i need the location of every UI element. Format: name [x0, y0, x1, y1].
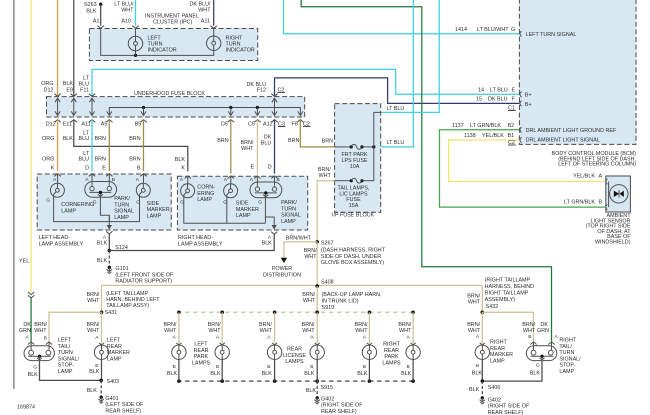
wire ORG vertical from top to fuse block D12	[57, 0, 59, 97]
node bus B5	[142, 106, 145, 109]
svg-text:BLU: BLU	[261, 140, 272, 146]
svg-text:REAR SHELF): REAR SHELF)	[105, 408, 141, 414]
lamp left rear park 1	[178, 312, 180, 343]
pin chevrons into right headlamp box	[185, 176, 191, 179]
svg-text:ASSEMBLY): ASSEMBLY)	[485, 297, 516, 303]
svg-text:BLK: BLK	[97, 241, 108, 247]
pin G chevron	[520, 31, 522, 37]
ground G402 (left instance)	[314, 396, 320, 404]
svg-text:D5: D5	[221, 122, 228, 128]
wire BRN B5 to left side marker	[143, 120, 145, 172]
fuse block internal pass-through D12	[55, 98, 60, 115]
svg-text:LT BLU: LT BLU	[387, 140, 405, 146]
svg-text:B: B	[267, 364, 270, 370]
fuse block internal pass-through F11/A11	[89, 98, 94, 115]
svg-text:WHT: WHT	[121, 8, 134, 14]
svg-text:ORG: ORG	[42, 157, 54, 163]
lamp rear license 2	[316, 312, 318, 343]
svg-text:BRN: BRN	[288, 138, 299, 144]
lamp right tail/turn signal/stop (dual)	[530, 342, 536, 345]
pin chevrons into left headlamp box	[54, 174, 60, 177]
pin F chevron B+	[520, 101, 522, 107]
wire BLK E11 across to right cornering lamp	[74, 120, 188, 172]
svg-text:G: G	[46, 198, 50, 204]
svg-text:BLK: BLK	[87, 388, 98, 394]
svg-text:SIDE: SIDE	[236, 201, 249, 207]
ground G101	[107, 266, 113, 274]
pin A10 chevron	[132, 26, 138, 29]
svg-text:15: 15	[476, 97, 482, 103]
svg-text:WHT: WHT	[303, 298, 316, 304]
wire fuse junction riser	[374, 112, 381, 180]
svg-text:GLOVE BOX ASSEMBLY): GLOVE BOX ASSEMBLY)	[321, 260, 384, 266]
wire BRN/WHT S408 trunk run (left to S431, right to S432)	[102, 285, 483, 312]
svg-text:LAMP: LAMP	[61, 208, 76, 214]
svg-text:RIGHT: RIGHT	[559, 338, 576, 344]
lamp left rear park 2	[221, 312, 223, 343]
svg-text:14: 14	[478, 87, 484, 93]
svg-text:A11: A11	[81, 122, 90, 128]
node junction under left turn indicator	[134, 54, 137, 57]
lamp right turn indicator	[207, 28, 221, 50]
lamp cornering (left)	[57, 174, 59, 183]
svg-text:B: B	[310, 364, 313, 370]
svg-text:10A: 10A	[350, 164, 360, 170]
svg-text:GRN: GRN	[537, 328, 549, 334]
svg-text:S403: S403	[107, 379, 120, 385]
svg-text:WHT: WHT	[523, 328, 536, 334]
svg-text:CORN-: CORN-	[197, 185, 215, 191]
svg-text:LT GRN/BLK: LT GRN/BLK	[470, 123, 501, 129]
underhood fuse block box	[47, 97, 305, 117]
svg-text:B2: B2	[508, 123, 515, 129]
svg-text:TAIL/: TAIL/	[559, 344, 572, 350]
svg-text:LAMP: LAMP	[114, 215, 129, 221]
svg-text:TURN: TURN	[559, 350, 574, 356]
svg-text:LEFT OF STEERING COLUMN): LEFT OF STEERING COLUMN)	[558, 162, 636, 168]
svg-text:G: G	[258, 200, 262, 206]
svg-text:LAMP: LAMP	[197, 197, 212, 203]
node YEL to DK GRN inline connector	[28, 292, 34, 295]
svg-text:(RIGHT TAILLAMP: (RIGHT TAILLAMP	[485, 278, 531, 284]
svg-text:LAMP: LAMP	[236, 213, 251, 219]
wire BLK left tail G to S403	[40, 361, 102, 380]
svg-text:WHT: WHT	[87, 298, 100, 304]
wire DK BLU A12 to right park/turn B	[274, 120, 276, 174]
svg-text:LT BLU/WHT: LT BLU/WHT	[477, 27, 509, 33]
svg-text:WHT: WHT	[164, 328, 177, 334]
svg-text:TURN: TURN	[58, 350, 73, 356]
svg-text:UNDERHOOD FUSE BLOCK: UNDERHOOD FUSE BLOCK	[134, 91, 205, 97]
svg-text:TURN: TURN	[281, 206, 296, 212]
wire BLK vertical from top to fuse block E9	[73, 0, 75, 97]
wire BRN F8 down and right to FRT PARK fuse	[300, 120, 334, 147]
svg-text:IN TRUNK LID): IN TRUNK LID)	[322, 299, 359, 305]
svg-text:MARKER: MARKER	[107, 350, 130, 356]
svg-text:D12: D12	[44, 88, 54, 94]
svg-text:D12: D12	[46, 122, 56, 128]
svg-text:SIGNAL/: SIGNAL/	[559, 356, 581, 362]
svg-text:BLK: BLK	[469, 387, 480, 393]
svg-text:WHT: WHT	[87, 328, 100, 334]
wire BRN/WHT S432 to right tail lamp B	[482, 312, 533, 341]
pin chevrons on top edge	[54, 94, 60, 97]
svg-text:(DASH HARNESS, RIGHT: (DASH HARNESS, RIGHT	[321, 248, 386, 254]
svg-text:WINDSHIELD): WINDSHIELD)	[595, 240, 631, 246]
svg-text:DRL AMBIENT LIGHT GROUND REF: DRL AMBIENT LIGHT GROUND REF	[526, 128, 617, 134]
svg-text:I/P FUSE BLOCK: I/P FUSE BLOCK	[332, 212, 375, 218]
svg-text:DRL AMBIENT LIGHT SIGNAL: DRL AMBIENT LIGHT SIGNAL	[526, 138, 600, 144]
svg-text:LAMP: LAMP	[147, 213, 162, 219]
wire LT BLU/WHT 1414 from top to BCM G	[284, 0, 520, 34]
svg-text:REAR: REAR	[490, 346, 505, 352]
wire BLK right marker B to S406	[481, 359, 483, 381]
svg-text:INDICATOR: INDICATOR	[148, 48, 177, 54]
svg-text:LEFT TURN SIGNAL: LEFT TURN SIGNAL	[526, 32, 577, 38]
svg-text:DK BLU: DK BLU	[488, 97, 508, 103]
wire DK BLU from C2 to fuse block F12 and over to BCM F	[275, 78, 520, 104]
svg-text:BLK: BLK	[63, 136, 74, 142]
svg-text:F11: F11	[80, 88, 89, 94]
svg-text:BLK: BLK	[89, 369, 100, 375]
splice S124	[108, 249, 112, 253]
splice S263	[99, 2, 102, 5]
node bus dot 4 (S919)	[315, 311, 319, 315]
svg-text:BLK: BLK	[63, 81, 74, 87]
svg-text:BLK: BLK	[210, 371, 221, 377]
svg-text:S919: S919	[322, 305, 335, 311]
svg-text:BLK: BLK	[401, 371, 412, 377]
svg-text:BRN: BRN	[322, 139, 333, 145]
svg-text:BLK: BLK	[306, 388, 317, 394]
svg-text:WHT: WHT	[302, 328, 315, 334]
svg-text:S432: S432	[486, 304, 499, 310]
wire BRN/WHT S431 to left tail lamp B	[49, 312, 102, 341]
sheet left margin line	[13, 0, 15, 389]
wire YEL vertical left	[30, 0, 32, 293]
svg-text:B: B	[476, 363, 479, 369]
svg-text:LAMP: LAMP	[281, 219, 296, 225]
svg-text:TAILLAMP ASSY): TAILLAMP ASSY)	[106, 303, 149, 309]
svg-text:REAR: REAR	[107, 344, 122, 350]
svg-text:LAMP ASSEMBLY: LAMP ASSEMBLY	[39, 241, 84, 247]
svg-text:BLK: BLK	[167, 371, 178, 377]
svg-text:G402: G402	[488, 398, 501, 404]
wire S124 to right headlamp ground	[109, 234, 274, 250]
svg-text:BLK: BLK	[304, 371, 315, 377]
wire BRN D5 to right side marker	[230, 120, 232, 174]
node bus C5	[256, 106, 259, 109]
wire BLK right tail G to S406	[482, 361, 542, 381]
fuse block internal bus	[109, 108, 300, 116]
svg-text:LT BLU: LT BLU	[490, 87, 508, 93]
svg-text:WHT: WHT	[241, 146, 254, 152]
svg-text:BRN: BRN	[129, 136, 140, 142]
svg-text:D: D	[268, 164, 272, 170]
splice S431	[100, 311, 104, 315]
wire BRN A5 to left park/turn lamp B	[108, 120, 110, 172]
svg-text:E: E	[251, 164, 255, 170]
svg-text:S406: S406	[488, 385, 501, 391]
svg-text:BRN: BRN	[217, 138, 228, 144]
svg-text:B: B	[173, 364, 176, 370]
pin A1 chevron	[98, 26, 104, 29]
svg-text:YEL: YEL	[19, 259, 29, 265]
svg-text:REAR SHELF): REAR SHELF)	[488, 410, 524, 415]
lamp right rear park 1	[368, 312, 370, 343]
svg-text:LICENSE: LICENSE	[283, 353, 306, 359]
svg-text:RIGHT: RIGHT	[490, 340, 507, 346]
svg-text:WHT: WHT	[198, 8, 211, 14]
node bus dot 5	[368, 311, 372, 315]
right headlamp assembly box	[177, 176, 307, 230]
svg-text:LT BLU: LT BLU	[387, 106, 405, 112]
svg-text:PARK: PARK	[384, 354, 399, 360]
pin E chevron B+	[520, 92, 522, 98]
svg-text:A12: A12	[263, 122, 273, 128]
svg-text:G: G	[511, 27, 515, 33]
svg-text:RIGHT TAILLAMP: RIGHT TAILLAMP	[485, 291, 529, 297]
wire BLK from S263 to IPC A1	[100, 4, 102, 25]
fuse FRT PARK LPS FUSE 10A	[335, 145, 374, 150]
wire BRN/WHT tail fuse to S267	[317, 181, 334, 242]
svg-text:BRN: BRN	[95, 157, 106, 163]
svg-text:B+: B+	[525, 93, 532, 99]
svg-text:WHT: WHT	[468, 328, 481, 334]
svg-text:ORG: ORG	[42, 136, 54, 142]
svg-text:BLK: BLK	[97, 258, 108, 264]
svg-text:BRN/WHT: BRN/WHT	[286, 235, 312, 241]
wire LT BLU/WHT from top to IPC A10	[135, 0, 137, 26]
svg-text:SIDE: SIDE	[147, 201, 160, 207]
ground G401	[98, 396, 104, 404]
svg-text:B+: B+	[525, 102, 532, 108]
svg-text:TURN: TURN	[114, 202, 129, 208]
wire BRN/WHT S267 to S408	[316, 242, 318, 286]
svg-text:WHT: WHT	[319, 173, 332, 179]
svg-text:MARKER: MARKER	[490, 352, 513, 358]
svg-text:A10: A10	[121, 19, 131, 25]
svg-text:MARKER: MARKER	[147, 207, 170, 213]
wire BRN/WHT C5 to right park/turn A	[256, 120, 258, 174]
node bus dot 3	[273, 311, 277, 315]
wire LT BLU riser to FRT PARK fuse output	[374, 0, 413, 147]
svg-text:1414: 1414	[455, 27, 467, 33]
svg-text:REAR: REAR	[194, 348, 209, 354]
svg-text:LEFT HEAD-: LEFT HEAD-	[39, 235, 71, 241]
svg-text:B1: B1	[508, 133, 515, 139]
svg-text:POWER: POWER	[272, 266, 292, 272]
svg-text:LEFT: LEFT	[194, 342, 208, 348]
node bus dot 2	[220, 311, 224, 315]
svg-text:BLU: BLU	[79, 157, 90, 163]
pin A BLK out of left headlamp box	[106, 231, 112, 234]
wire LT BLU from F11 corner across below IPC	[92, 69, 519, 96]
lamp right rear park 2	[412, 312, 414, 343]
wire DK GRN to left tail lamp	[30, 298, 32, 342]
wire ORG D12 to left cornering lamp	[57, 120, 59, 172]
svg-text:15A: 15A	[349, 203, 359, 209]
svg-text:B: B	[599, 199, 603, 205]
svg-text:BLK: BLK	[175, 157, 186, 163]
svg-text:CORNERING: CORNERING	[61, 202, 94, 208]
svg-text:YEL/BLK: YEL/BLK	[482, 133, 504, 139]
splice S432	[481, 311, 485, 315]
svg-text:(RIGHT SIDE OF: (RIGHT SIDE OF	[321, 403, 363, 409]
svg-text:(RIGHT SIDE OF: (RIGHT SIDE OF	[488, 404, 530, 410]
svg-text:REAR SHELF): REAR SHELF)	[321, 409, 357, 415]
svg-text:STOP-: STOP-	[58, 363, 75, 369]
svg-text:INDICATOR: INDICATOR	[226, 48, 255, 54]
svg-text:G401: G401	[105, 396, 118, 402]
wire BLK S406 to G402	[481, 381, 483, 397]
svg-text:ORG: ORG	[41, 81, 53, 87]
lamp right rear marker	[475, 343, 489, 360]
svg-text:GRN: GRN	[19, 328, 31, 334]
wire LT BLU riser to IP fuse block top	[381, 0, 440, 112]
node bus dot 1	[177, 311, 181, 315]
body control module (BCM) box	[519, 0, 636, 144]
svg-text:C5: C5	[248, 122, 255, 128]
svg-text:CLUSTER (IPC): CLUSTER (IPC)	[153, 20, 192, 26]
wire BRN/WHT S431 down to left rear marker	[101, 312, 103, 343]
svg-text:RADIATOR SUPPORT): RADIATOR SUPPORT)	[115, 279, 172, 285]
svg-text:WHT: WHT	[304, 254, 317, 260]
svg-text:E: E	[512, 87, 516, 93]
wire BLK left marker B to S403	[101, 359, 103, 380]
svg-text:(LEFT SIDE OF: (LEFT SIDE OF	[105, 402, 144, 408]
node fuse output junction	[372, 145, 375, 148]
splice S406	[481, 379, 485, 383]
lamp left tail/turn signal/stop (dual)	[28, 342, 34, 345]
splice S408	[315, 284, 319, 288]
pin chevrons on bottom edge	[54, 120, 60, 123]
wire IPC internal A1 down and across	[101, 28, 214, 55]
wire BRN/WHT S408 down to S919 bus	[316, 286, 318, 312]
svg-text:BRN: BRN	[129, 157, 140, 163]
svg-text:WHT: WHT	[355, 328, 368, 334]
left headlamp assembly box	[37, 174, 171, 230]
svg-text:F8: F8	[292, 122, 298, 128]
svg-text:G101: G101	[115, 266, 128, 272]
svg-text:A: A	[599, 174, 603, 180]
wire BLK to S124	[108, 234, 110, 251]
svg-text:BLK: BLK	[472, 371, 483, 377]
svg-text:S431: S431	[105, 310, 118, 316]
svg-text:REAR: REAR	[384, 348, 399, 354]
instrument panel cluster (IPC) box	[89, 29, 257, 61]
svg-text:D: D	[85, 165, 89, 171]
svg-text:ERING: ERING	[197, 191, 214, 197]
fuse block internal pass-through F12/A12	[272, 98, 277, 115]
svg-text:REAR: REAR	[287, 347, 302, 353]
svg-text:LAMP ASSEMBLY: LAMP ASSEMBLY	[178, 241, 223, 247]
svg-text:TAIL/: TAIL/	[58, 344, 71, 350]
wire left box ground routing	[54, 195, 140, 222]
svg-text:BLK: BLK	[357, 371, 368, 377]
svg-text:1137: 1137	[452, 123, 464, 129]
svg-text:G: G	[33, 365, 37, 371]
svg-text:1138: 1138	[464, 133, 476, 139]
splice S403	[99, 379, 103, 383]
svg-text:SIGNAL: SIGNAL	[114, 209, 134, 215]
svg-text:LAMPS: LAMPS	[192, 360, 211, 366]
svg-text:S408: S408	[321, 280, 334, 286]
splice S267	[315, 240, 319, 244]
wire BLK S403 to G401	[100, 380, 102, 396]
svg-text:LT GRN/BLK: LT GRN/BLK	[564, 199, 595, 205]
svg-text:BLK: BLK	[530, 371, 541, 377]
svg-text:G: G	[93, 200, 97, 206]
wire DK BLU/WHT from top to IPC A11	[213, 0, 215, 26]
svg-text:K: K	[51, 165, 55, 171]
svg-text:S267: S267	[321, 241, 334, 247]
lamp left rear marker	[94, 343, 108, 360]
svg-text:B: B	[44, 336, 47, 342]
svg-text:BLU: BLU	[79, 136, 90, 142]
svg-text:E: E	[102, 165, 106, 171]
svg-text:BLK: BLK	[28, 372, 39, 378]
svg-text:WHT: WHT	[399, 328, 412, 334]
svg-text:LAMP: LAMP	[107, 356, 122, 362]
arrow to power distribution	[281, 258, 287, 263]
svg-text:LAMP: LAMP	[58, 369, 73, 375]
svg-text:B: B	[363, 364, 366, 370]
pin A BLK out of right headlamp box	[271, 232, 277, 235]
svg-text:(BACK-UP LAMP HARN,: (BACK-UP LAMP HARN,	[322, 292, 383, 298]
svg-text:BLK: BLK	[86, 9, 97, 15]
svg-text:WHT: WHT	[34, 328, 47, 334]
svg-text:B: B	[216, 364, 219, 370]
svg-text:WHT: WHT	[208, 328, 221, 334]
svg-text:MARKER: MARKER	[236, 207, 259, 213]
svg-text:B5: B5	[135, 122, 142, 128]
svg-text:LEFT: LEFT	[58, 338, 72, 344]
svg-text:LAMPS: LAMPS	[382, 360, 401, 366]
svg-text:B: B	[137, 165, 141, 171]
svg-text:DISTRIBUTION: DISTRIBUTION	[263, 272, 301, 278]
svg-text:(LEFT FRONT SIDE OF: (LEFT FRONT SIDE OF	[115, 272, 174, 278]
svg-text:LAMPS: LAMPS	[285, 359, 304, 365]
svg-text:WHT: WHT	[468, 299, 481, 305]
svg-text:K: K	[181, 165, 185, 171]
svg-text:RIGHT: RIGHT	[383, 342, 400, 348]
svg-text:LAMP: LAMP	[490, 358, 505, 364]
svg-text:E11: E11	[63, 122, 72, 128]
svg-text:B: B	[407, 364, 410, 370]
lamp rear license 1	[274, 312, 276, 343]
harness bus (dashed, bottom) with ground dots	[177, 380, 413, 382]
svg-text:RIGHT HEAD-: RIGHT HEAD-	[178, 235, 213, 241]
node bus dot 6	[411, 311, 415, 315]
wire right box ground routing	[184, 195, 227, 223]
harness bus S919 (dashed, top)	[177, 311, 413, 313]
wire BRN/WHT S267 to power distribution	[284, 242, 317, 258]
svg-text:PARK/: PARK/	[114, 196, 130, 202]
svg-text:WHT: WHT	[260, 328, 273, 334]
wire LT GRN/BLK 1137 from BCM B2 to sensor B	[440, 130, 605, 207]
svg-text:G402: G402	[321, 397, 334, 403]
svg-text:SIGNAL: SIGNAL	[281, 213, 301, 219]
svg-text:SIGNAL/: SIGNAL/	[58, 356, 80, 362]
svg-text:B: B	[528, 334, 531, 340]
wire LT BLU A11 to left park/turn lamp	[91, 120, 93, 172]
svg-text:F12: F12	[257, 88, 266, 94]
wire BLK S124 to G101	[108, 251, 110, 267]
fuse block internal pass-through E9/E11	[71, 98, 76, 115]
svg-text:YEL/BLK: YEL/BLK	[573, 174, 595, 180]
svg-text:BRN: BRN	[95, 136, 106, 142]
